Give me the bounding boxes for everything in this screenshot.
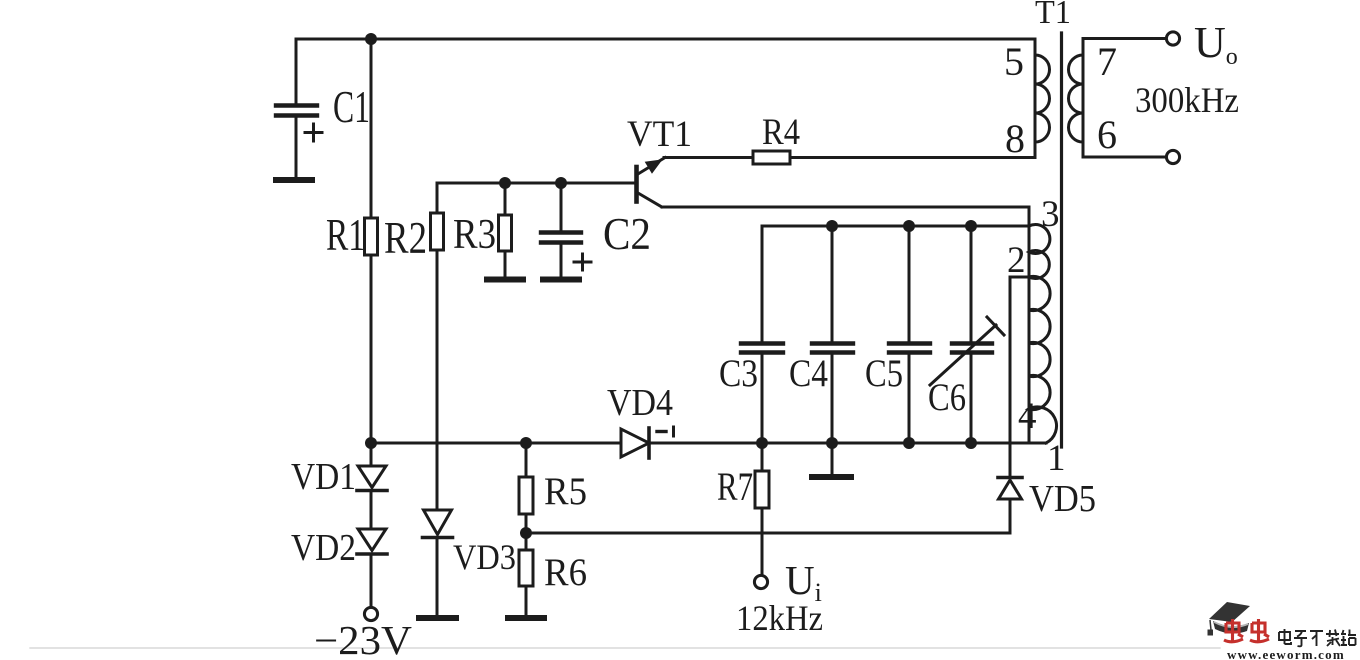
svg-text:4: 4 <box>1018 396 1037 437</box>
svg-text:VD4: VD4 <box>607 382 673 424</box>
svg-text:5: 5 <box>1004 39 1024 84</box>
svg-text:−23V: −23V <box>314 617 412 660</box>
svg-text:R5: R5 <box>544 470 587 513</box>
svg-text:C2: C2 <box>603 209 651 259</box>
svg-text:3: 3 <box>1041 194 1060 235</box>
svg-text:VD3: VD3 <box>453 537 516 577</box>
svg-text:VD5: VD5 <box>1029 478 1096 520</box>
svg-text:R2: R2 <box>384 213 427 263</box>
svg-text:C4: C4 <box>789 352 828 395</box>
svg-text:8: 8 <box>1005 116 1025 161</box>
svg-text:R1: R1 <box>326 210 365 260</box>
svg-text:300kHz: 300kHz <box>1135 80 1239 120</box>
svg-text:1: 1 <box>1047 438 1066 479</box>
svg-text:R7: R7 <box>717 464 753 509</box>
svg-text:T1: T1 <box>1035 0 1071 31</box>
svg-text:12kHz: 12kHz <box>736 598 823 638</box>
svg-text:6: 6 <box>1097 112 1117 157</box>
svg-text:VT1: VT1 <box>627 114 692 155</box>
svg-text:www.eeworm.com: www.eeworm.com <box>1227 647 1345 660</box>
svg-text:R3: R3 <box>453 212 496 258</box>
svg-text:VD2: VD2 <box>291 527 356 569</box>
svg-text:7: 7 <box>1097 39 1117 84</box>
svg-text:2: 2 <box>1007 240 1026 281</box>
svg-text:Uo: Uo <box>1194 18 1238 70</box>
svg-text:C5: C5 <box>865 352 903 395</box>
svg-text:C6: C6 <box>928 376 966 419</box>
svg-text:R4: R4 <box>762 112 800 153</box>
svg-text:C3: C3 <box>719 352 758 395</box>
svg-text:C1: C1 <box>333 82 370 132</box>
svg-text:VD1: VD1 <box>291 456 356 498</box>
svg-text:R6: R6 <box>544 551 587 594</box>
